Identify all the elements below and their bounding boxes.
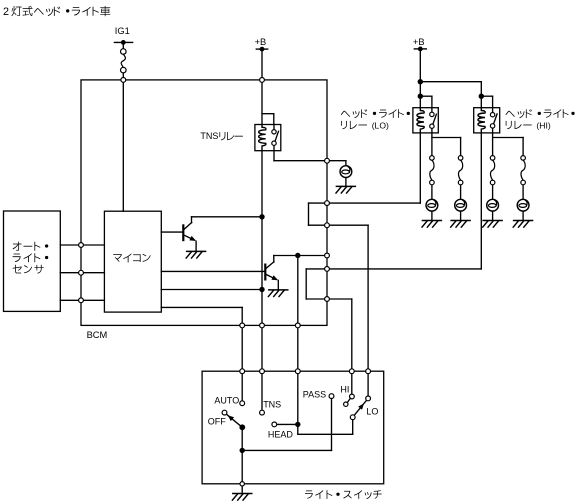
- wire +B pin down to TNS relay: [261, 82, 263, 124]
- auto light sensor box: [4, 211, 61, 311]
- wire LO relay output: [432, 133, 461, 156]
- BCM pin HEAD (bottom edge): [295, 323, 300, 328]
- BCM pin sensor 1 (left edge): [79, 243, 84, 248]
- label HI switch: [340, 385, 349, 395]
- connector RH high beam: [521, 156, 526, 185]
- svg-text:+B: +B: [255, 37, 267, 47]
- label PASS: [303, 389, 326, 399]
- BCM pin TNS (bottom edge): [260, 323, 265, 328]
- wire microcomputer to Q1 base: [161, 231, 183, 233]
- wire branch to TNS relay switch contact: [262, 114, 274, 125]
- BCM pin TNS output (right edge): [325, 158, 330, 163]
- wire +B down to LO relay: [419, 51, 421, 108]
- wire connector to LH low beam lamp: [431, 185, 433, 200]
- junction pole / PASS wire: [240, 448, 245, 453]
- svg-text:TNS: TNS: [200, 131, 218, 141]
- BCM pin IG1 (top edge): [121, 78, 126, 83]
- dimmer HI stub lever: [344, 398, 351, 406]
- junction LO relay contact feed: [418, 94, 423, 99]
- wire microcomputer to Q2 base: [161, 270, 265, 272]
- contact AUTO: [240, 401, 245, 406]
- BCM pin Q2 collector (right edge): [325, 253, 330, 258]
- light switch pin AUTO (top edge): [240, 369, 245, 374]
- svg-text:LO: LO: [366, 406, 378, 416]
- BCM pin HI coil (right edge): [325, 267, 330, 272]
- wire RH low beam drop: [460, 138, 462, 156]
- light switch pin TNS (top edge): [260, 369, 265, 374]
- headlamp LH high beam: [487, 199, 499, 211]
- svg-text:(HI): (HI): [536, 121, 550, 131]
- ground light switch: [232, 494, 251, 501]
- BCM internal wire HI: [306, 269, 324, 299]
- wire RH high beam drop: [522, 138, 524, 156]
- wire to HI contact: [351, 374, 353, 395]
- wire sensor output 3 to microcomputer: [60, 299, 104, 301]
- BCM pin LO coil (right edge): [325, 201, 330, 206]
- wire HI relay output: [493, 133, 523, 156]
- contact LO: [366, 396, 371, 401]
- connector RH low beam: [458, 156, 463, 185]
- label OFF: [208, 417, 226, 427]
- headlight relay LO box: [413, 108, 438, 133]
- light switch pin LO (top edge): [366, 369, 371, 374]
- BCM pin LO switch (right edge): [325, 223, 330, 228]
- TNS relay box: [255, 125, 281, 151]
- label headlight relay HI: [505, 109, 574, 130]
- ground LH low beam: [422, 221, 441, 228]
- wire node to tail lamp: [345, 161, 347, 166]
- transistor Q1: [183, 217, 196, 241]
- label TNS relay: [200, 131, 242, 141]
- wire +B to BCM pin: [261, 51, 263, 77]
- headlamp RH low beam: [455, 199, 467, 211]
- wire IG1 connector to BCM pin: [122, 73, 124, 78]
- label +B right: [413, 37, 425, 47]
- label LO switch: [366, 406, 378, 416]
- power terminal +B (headlight relays): [414, 47, 426, 52]
- wire pole to PASS contact: [242, 399, 331, 451]
- microcomputer box: [104, 211, 161, 312]
- headlight relay HI coil: [478, 108, 485, 133]
- wire tail lamp to ground: [345, 178, 347, 187]
- connector on IG1 wire: [121, 49, 127, 73]
- svg-text:BCM: BCM: [87, 330, 108, 340]
- TNS relay coil: [259, 125, 266, 151]
- contact OFF: [222, 410, 227, 415]
- wire LH high beam lamp to ground: [492, 211, 494, 220]
- wire sensor output 1 to microcomputer: [60, 244, 104, 246]
- wire Q2 collector to BCM pin: [274, 255, 327, 257]
- wire LH low beam lamp to ground: [431, 211, 433, 220]
- label TNS switch: [263, 399, 281, 409]
- wire HEAD net down: [297, 256, 299, 324]
- label auto light sensor: [13, 242, 49, 274]
- wire IG1 terminal to connector: [122, 45, 124, 49]
- wire to LO contact: [367, 374, 369, 396]
- BCM pin sensor 3 (left edge): [79, 298, 84, 303]
- TNS relay switch contacts: [272, 125, 276, 146]
- BCM pin HI switch (right edge): [325, 297, 330, 302]
- headlight relay LO coil: [417, 108, 424, 133]
- wire to TNS contact: [261, 374, 263, 411]
- ground RH high beam: [513, 221, 532, 228]
- junction TNS sense: [259, 287, 264, 292]
- wire sensor output 2 to microcomputer: [60, 272, 104, 274]
- wire HEAD contact to HEAD net: [277, 423, 298, 425]
- svg-text:(LO): (LO): [372, 121, 389, 131]
- TNS relay switch lever: [275, 131, 279, 141]
- switch lever OFF position: [227, 415, 242, 428]
- label BCM: [87, 330, 108, 340]
- label +B left: [255, 37, 267, 47]
- wire microcomputer AUTO output: [161, 307, 242, 323]
- wire pole down: [241, 427, 243, 484]
- BCM pin sensor 2 (left edge): [79, 270, 84, 275]
- connector LH low beam: [430, 156, 435, 185]
- junction +B branch to HI relay: [418, 79, 423, 84]
- light switch pin HI (top edge): [349, 369, 354, 374]
- title label: 2-lamp type headlight vehicle: [3, 6, 110, 18]
- label IG1: [115, 26, 130, 36]
- BCM internal wire LO: [309, 203, 325, 225]
- wire LO relay contact feed: [420, 96, 432, 108]
- svg-text:+B: +B: [413, 37, 425, 47]
- contact dimmer common: [350, 415, 355, 420]
- svg-text:HI: HI: [340, 385, 349, 395]
- svg-text:AUTO: AUTO: [214, 395, 239, 405]
- tail lamp (TNS): [340, 166, 352, 178]
- headlight relay LO switch lever: [433, 114, 437, 124]
- wire HI relay contact feed: [481, 96, 492, 108]
- svg-text:IG1: IG1: [115, 26, 130, 36]
- power terminal +B (TNS relay feed): [256, 47, 267, 52]
- wire AUTO to light switch: [241, 328, 243, 369]
- svg-text:HEAD: HEAD: [268, 429, 294, 439]
- BCM pin AUTO (bottom edge): [240, 323, 245, 328]
- label AUTO: [214, 395, 239, 405]
- ground LH high beam: [483, 221, 502, 228]
- wire LO relay coil to BCM: [329, 133, 420, 203]
- junction Q2 collector / HEAD net: [295, 253, 300, 258]
- headlight relay HI switch lever: [494, 114, 498, 124]
- ground Q1 emitter: [186, 251, 205, 258]
- svg-text:OFF: OFF: [208, 417, 226, 427]
- headlamp RH high beam: [517, 199, 529, 211]
- headlight relay LO switch contacts: [430, 108, 434, 133]
- wire TNS to light switch: [261, 328, 263, 369]
- transistor Q2: [265, 256, 278, 281]
- wire microcomputer TNS sense: [161, 289, 262, 291]
- label light switch: [305, 490, 382, 499]
- wire +B branch to HI relay: [420, 82, 481, 108]
- wire BCM to dimmer LO contact: [329, 225, 368, 369]
- wire switch to ground: [241, 486, 243, 493]
- wire RH high beam lamp to ground: [522, 211, 524, 220]
- BCM pin +B (top edge): [260, 78, 265, 83]
- wire Q1 emitter to ground: [195, 241, 197, 251]
- wire Q2 emitter to ground: [277, 280, 279, 289]
- dimmer lever LO position: [353, 401, 367, 418]
- headlight relay HI box: [474, 108, 500, 133]
- svg-text:PASS: PASS: [303, 389, 326, 399]
- light switch box: [202, 371, 384, 484]
- wire connector to RH high beam lamp: [522, 185, 524, 200]
- headlight relay HI switch contacts: [490, 108, 494, 133]
- wire connector to RH low beam lamp: [460, 185, 462, 200]
- wire TNS relay switch to tail lamp node: [274, 145, 346, 160]
- wire TNS coil bottom down (net TNS): [261, 151, 263, 323]
- ground RH low beam: [451, 221, 470, 228]
- light switch pin ground (bottom edge): [240, 482, 244, 486]
- wire BCM to dimmer HI contact: [329, 299, 351, 369]
- wire IG1 pin to microcomputer: [122, 82, 124, 211]
- contact HEAD: [272, 422, 277, 427]
- junction Q1 collector / TNS coil: [259, 214, 264, 219]
- ground Q2 emitter: [268, 290, 287, 297]
- wire RH low beam lamp to ground: [460, 211, 462, 220]
- label headlight relay LO: [341, 109, 410, 130]
- contact HI: [350, 394, 355, 399]
- junction HEAD net: [295, 422, 300, 427]
- connector LH high beam: [490, 156, 495, 185]
- label HEAD: [268, 429, 294, 439]
- svg-text:TNS: TNS: [263, 399, 281, 409]
- svg-text:2: 2: [3, 6, 9, 18]
- wire connector to LH high beam lamp: [492, 185, 494, 200]
- BCM box outline: [81, 80, 327, 326]
- label microcomputer: [113, 253, 150, 262]
- power terminal IG1 (battery stub): [114, 40, 132, 45]
- junction switch pole: [239, 424, 245, 430]
- wire Q1 collector to TNS coil node: [192, 216, 263, 218]
- ground tail lamp: [336, 186, 355, 193]
- wire HEAD net to dimmer common: [298, 371, 353, 434]
- light switch pin HEAD (top edge): [295, 369, 300, 374]
- wire HEAD to light switch: [297, 328, 299, 369]
- headlamp LH low beam: [426, 199, 438, 211]
- junction HI relay contact feed: [479, 94, 484, 99]
- contact PASS: [329, 394, 334, 399]
- contact TNS: [260, 410, 265, 415]
- wire to AUTO contact: [241, 374, 243, 401]
- wire HI relay coil to BCM: [329, 133, 481, 269]
